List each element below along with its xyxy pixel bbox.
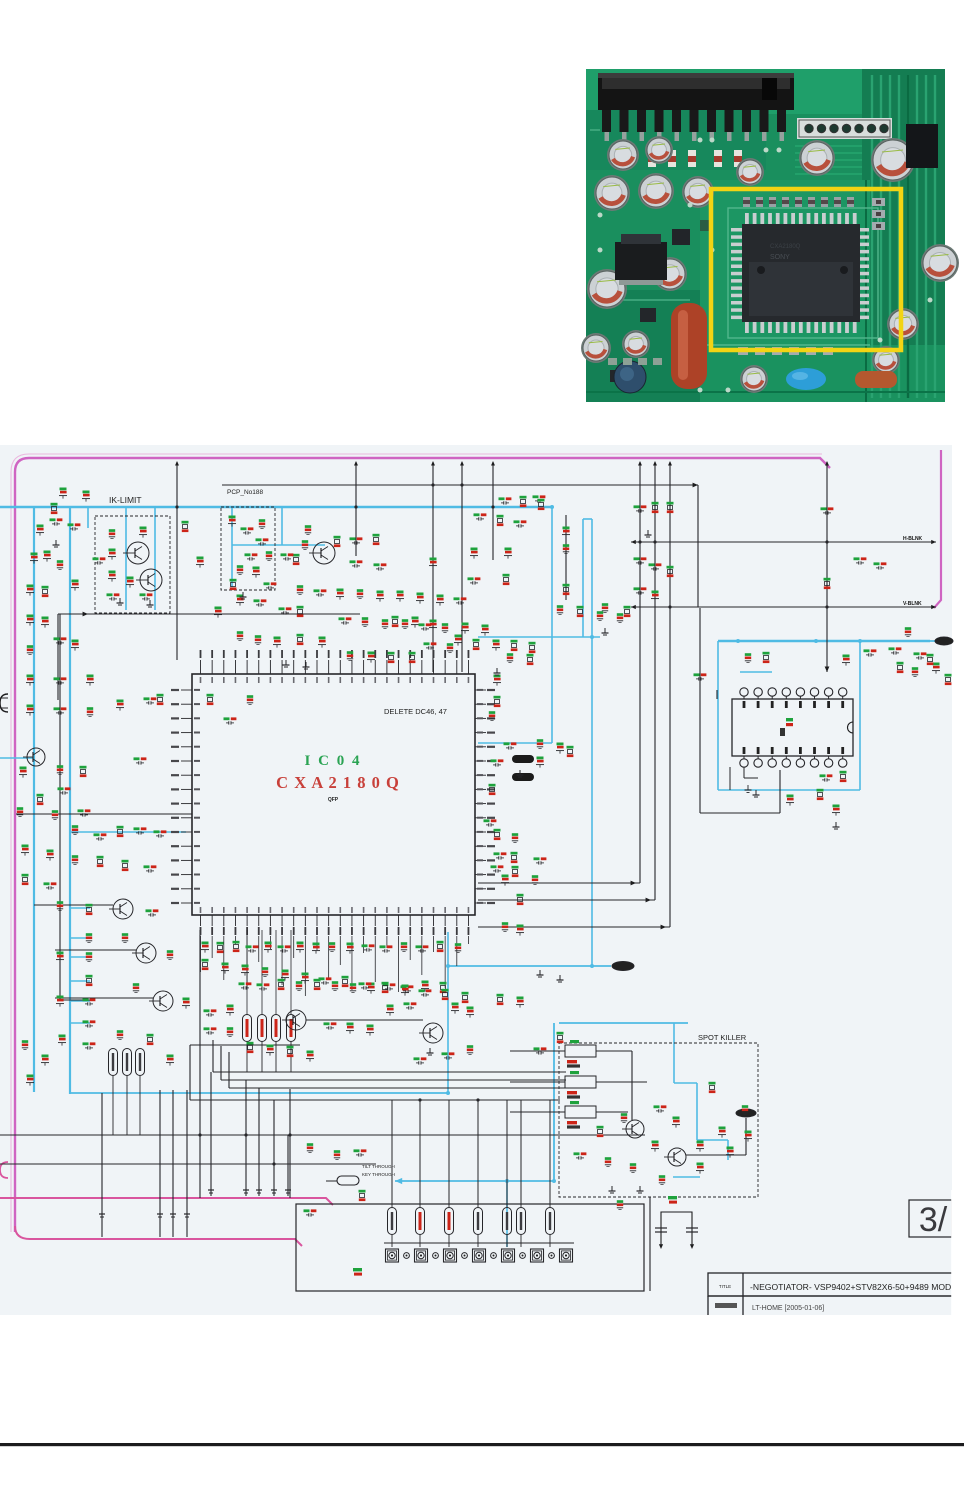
svg-text:SPOT KILLER: SPOT KILLER — [698, 1033, 747, 1042]
component cluster 259 — [302, 973, 309, 976]
component cluster 150 — [383, 983, 389, 986]
cyan stub x88 — [87, 507, 89, 528]
component cluster 27 — [374, 563, 380, 566]
wire vertical x200 drop — [199, 930, 201, 1198]
component cluster 98 — [167, 950, 173, 953]
component cluster 113 — [557, 743, 564, 746]
wire vertical x246 drop — [245, 1080, 247, 1196]
component cluster 6 — [93, 557, 99, 560]
component cluster 44 — [471, 548, 478, 551]
component cluster 49 — [533, 495, 539, 498]
component cluster 210 — [442, 623, 448, 626]
component cluster 99 — [183, 998, 190, 1001]
component cluster 100 — [122, 933, 128, 936]
pink border right segment — [934, 450, 941, 608]
component cluster 239 — [117, 700, 124, 703]
wire spot in 1 — [596, 1050, 632, 1052]
component cluster 35 — [297, 634, 304, 637]
IC U2 body — [732, 699, 853, 756]
component cluster 106 — [511, 640, 518, 643]
arrowheads at border top — [175, 461, 179, 465]
component cluster 181 — [659, 1175, 665, 1178]
pill x291 red — [287, 1015, 296, 1042]
schematic paper background — [0, 445, 952, 1315]
component cluster 167 — [467, 1045, 473, 1048]
wire vertical x493 — [492, 462, 494, 560]
component cluster 50 — [563, 527, 570, 530]
wire x190 drop — [189, 1045, 191, 1100]
component cluster 291 — [197, 557, 204, 560]
component cluster 121 — [534, 857, 540, 860]
black IC right top corner — [906, 124, 938, 168]
component cluster 5 — [68, 523, 74, 526]
component cluster 151 — [401, 985, 407, 988]
component cluster 292 — [127, 577, 134, 580]
wire spot in 2 — [596, 1081, 647, 1083]
pill x262 red — [258, 1015, 267, 1042]
component cluster 243 — [72, 855, 78, 858]
component cluster 185 — [617, 1200, 623, 1203]
svg-text:DELETE DC46, 47: DELETE DC46, 47 — [384, 707, 447, 716]
spot killer black pill connector — [736, 1109, 756, 1117]
IC U1 left pins — [181, 689, 192, 691]
component cluster 85 — [154, 830, 160, 833]
wire bus vertical x640 — [639, 462, 641, 883]
wire vertical x462 — [461, 462, 463, 672]
dark inductor pill L2 — [512, 773, 534, 781]
wire spot input 2 — [510, 1081, 565, 1083]
component cluster 191 — [266, 551, 272, 554]
component cluster 143 — [257, 983, 263, 986]
component cluster 15 — [229, 516, 236, 519]
component cluster 66 — [763, 652, 770, 655]
component cluster 43 — [279, 607, 285, 610]
transistor Q6 — [136, 943, 156, 963]
component cluster 42 — [297, 606, 304, 609]
transistor Q1 — [127, 542, 149, 564]
component cluster 131 — [278, 945, 284, 948]
wire vertical x177 — [176, 462, 178, 660]
component cluster 279 — [520, 496, 527, 499]
cyan spotkiller horizontal y1140 — [697, 1139, 728, 1141]
component cluster 260 — [319, 977, 325, 980]
IC U2 top pins — [740, 688, 748, 696]
cyan ladder stub 5 — [70, 1000, 90, 1002]
wire spot q11 base — [686, 1154, 746, 1156]
component cluster 72 — [945, 674, 952, 677]
component cluster 46 — [468, 577, 474, 580]
component cluster 59 — [824, 578, 831, 581]
component cluster 228 — [27, 615, 34, 618]
dark inductor pill L1 — [512, 755, 534, 763]
IC U2 bottom pins — [740, 759, 748, 767]
component cluster 152 — [422, 981, 429, 984]
wire vertical x827 — [826, 462, 828, 672]
cyan PCP vertical 1 — [231, 507, 233, 587]
wire horizontal y614 — [58, 613, 360, 615]
cyan stub y832 — [70, 831, 186, 833]
component cluster 230 — [27, 645, 33, 648]
component cluster 116 — [537, 757, 544, 760]
pink page border — [15, 458, 830, 1232]
component cluster 31 — [347, 651, 353, 654]
main IC (QFP) on photo — [745, 213, 749, 225]
cyan wire vertical x552 — [551, 507, 553, 743]
bottom big box — [296, 1204, 644, 1291]
connector squares row — [386, 1249, 399, 1262]
component cluster 130 — [265, 942, 272, 945]
component cluster 231 — [54, 637, 60, 640]
component cluster 144 — [278, 979, 285, 982]
connector pill x392 — [388, 1208, 397, 1235]
component cluster 169 — [442, 1052, 448, 1055]
cyan spotkiller vertical x697 — [696, 1083, 698, 1140]
wire spot in 3 — [596, 1111, 628, 1113]
right margin patch — [951, 1190, 964, 1320]
cyan vertical x554 — [553, 1023, 555, 1181]
wire horizontal y485 — [222, 484, 698, 486]
transistor Q7 — [153, 991, 173, 1011]
wire y1045 mid — [190, 1044, 300, 1046]
component cluster 166 — [557, 1032, 564, 1035]
cyan ladder stub 2 — [70, 937, 90, 939]
component cluster 141 — [455, 943, 461, 946]
wire vertical x566 upper — [565, 515, 567, 600]
component cluster 29 — [412, 617, 419, 620]
component cluster 25 — [293, 554, 300, 557]
component cluster 236 — [27, 705, 34, 708]
component cluster 273 — [307, 1051, 314, 1054]
cyan IK box vertical 2 — [154, 507, 156, 610]
wire vertical x58 — [57, 614, 59, 700]
component cluster 115 — [491, 759, 497, 762]
svg-text:SONY: SONY — [770, 254, 790, 261]
cyan pill right bus end — [935, 637, 953, 645]
component cluster 28 — [392, 616, 399, 619]
component cluster 32 — [368, 652, 375, 655]
component cluster 160 — [404, 1002, 410, 1005]
wire IC2 outline left — [716, 690, 718, 699]
component cluster 202 — [417, 593, 424, 596]
component cluster 82 — [94, 833, 100, 836]
component cluster 172 — [307, 1143, 313, 1146]
component cluster 176 — [727, 1147, 734, 1150]
component cluster 223 — [667, 566, 674, 569]
IC U2 center labels — [786, 718, 793, 721]
component cluster 81 — [72, 825, 78, 828]
component cluster 222 — [649, 563, 655, 566]
component cluster 153 — [440, 982, 447, 985]
component cluster 193 — [302, 540, 308, 543]
cyan ladder stub 6 — [70, 1022, 90, 1024]
component cluster 77 — [37, 794, 44, 797]
wire RGB feed 3 — [228, 1052, 230, 1088]
wire row above squares — [384, 1242, 574, 1244]
transistor Q8 — [423, 1023, 443, 1043]
component cluster 84 — [134, 827, 140, 830]
wire RGB feed 2 — [220, 1046, 222, 1080]
component cluster 156 — [324, 1022, 330, 1025]
component cluster 242 — [47, 850, 54, 853]
component cluster 174 — [654, 1105, 660, 1108]
pill x127 — [123, 1049, 132, 1076]
component cluster 203 — [437, 595, 444, 598]
component cluster 267 — [462, 992, 469, 995]
component cluster 117 — [489, 784, 496, 787]
component cluster 4 — [50, 518, 56, 521]
component cluster 70 — [694, 673, 700, 676]
component cluster 195 — [373, 534, 380, 537]
wire vertical x433 — [432, 462, 434, 672]
wire vertical x288 drop — [287, 1135, 289, 1196]
component cluster 22 — [264, 582, 270, 585]
component cluster 246 — [144, 865, 150, 868]
component cluster 302 — [254, 599, 260, 602]
component cluster 95 — [59, 1035, 66, 1038]
SMD row above IC — [743, 197, 750, 207]
component cluster 275 — [597, 1126, 604, 1129]
SPOT KILLER dashed box — [559, 1043, 758, 1197]
component cluster 68 — [840, 771, 847, 774]
component cluster 127 — [217, 942, 224, 945]
component cluster 237 — [54, 707, 60, 710]
component cluster 140 — [437, 941, 444, 944]
component cluster 212 — [424, 642, 430, 645]
component cluster 190 — [245, 553, 251, 556]
arrow V-BLNK — [631, 605, 636, 609]
component cluster 65 — [745, 653, 751, 656]
component cluster 250 — [512, 833, 518, 836]
component cluster 304 — [359, 1190, 366, 1193]
svg-text:PCP_No188: PCP_No188 — [227, 489, 264, 496]
large red capacitor — [671, 303, 707, 389]
component cluster 64 — [905, 627, 911, 630]
cyan wire y966 — [448, 965, 611, 967]
component cluster 187 — [787, 795, 794, 798]
op IC U1 CXA2180Q body — [192, 674, 475, 915]
component cluster 192 — [281, 553, 287, 556]
component cluster 271 — [267, 1045, 274, 1048]
component cluster 188 — [854, 557, 860, 560]
component cluster 120 — [511, 852, 518, 855]
component cluster 21 — [253, 567, 260, 570]
component cluster 232 — [72, 640, 79, 643]
transistor Q9 — [286, 1010, 306, 1030]
PCP dashed box — [221, 507, 275, 590]
small SMD parts left — [672, 229, 690, 245]
component cluster 128 — [233, 941, 240, 944]
component cluster 91 — [83, 1020, 89, 1023]
component cluster 252 — [512, 866, 519, 869]
wire bus vertical x670 — [669, 462, 671, 927]
component cluster 281 — [474, 513, 480, 516]
component cluster 125 — [517, 925, 524, 928]
component cluster 133 — [313, 943, 320, 946]
component cluster 182 — [697, 1163, 704, 1166]
component cluster 200 — [377, 591, 384, 594]
connector J1 (black header) — [598, 73, 794, 110]
svg-text:CXA2180Q: CXA2180Q — [770, 244, 801, 250]
component cluster 88 — [86, 952, 92, 955]
component cluster 14 — [107, 593, 113, 596]
component cluster 52 — [563, 584, 570, 587]
bottom horizontal rule — [0, 1443, 964, 1446]
component cluster 114 — [567, 746, 574, 749]
component cluster 122 — [502, 875, 509, 878]
component cluster 55 — [634, 505, 640, 508]
cyan PCP vertical 2 — [281, 507, 283, 545]
component cluster 184 — [745, 1131, 752, 1134]
left edge bracket connector — [0, 694, 8, 712]
component cluster 58 — [821, 507, 827, 510]
component cluster 12 — [140, 527, 147, 530]
component cluster 30 — [430, 620, 437, 623]
component cluster 295 — [207, 694, 214, 697]
wire junction dots — [175, 505, 178, 508]
spot killer switch S2 — [565, 1076, 596, 1088]
component cluster 101 — [133, 983, 139, 986]
component cluster 197 — [314, 589, 320, 592]
component cluster 253 — [532, 875, 538, 878]
wire bus y1088 — [229, 1087, 566, 1089]
transistor Q3 — [313, 542, 335, 564]
wire vertical x187 drop — [186, 1090, 188, 1237]
wire ladder join — [60, 999, 90, 1001]
component cluster 269 — [227, 1027, 233, 1030]
spot killer transistor Q10 — [626, 1120, 644, 1138]
component cluster 219 — [597, 611, 603, 614]
connector pill x550 — [546, 1208, 555, 1235]
component cluster 268 — [204, 1027, 210, 1030]
wire bus y1080 — [221, 1079, 566, 1081]
component cluster 206 — [362, 617, 368, 620]
cyan wire vertical x448 — [447, 932, 449, 1093]
component cluster 248 — [44, 882, 50, 885]
component cluster 67 — [820, 774, 826, 777]
cyan wire vertical x860 — [859, 641, 861, 790]
bottom SMD row — [738, 347, 748, 355]
component cluster 16 — [241, 527, 247, 530]
component cluster 7 — [31, 553, 38, 556]
component cluster 74 — [80, 766, 87, 769]
cyan spotkiller horizontal y1023 — [559, 1022, 688, 1024]
pink connector hook left edge — [0, 1162, 8, 1178]
solder pads dots — [698, 138, 703, 143]
component cluster 165 — [534, 1047, 540, 1050]
svg-text:QFP: QFP — [328, 797, 339, 803]
svg-text:H-BLNK: H-BLNK — [903, 536, 923, 542]
cyan stub left bottom — [0, 757, 34, 759]
cyan PCP horizontal — [232, 544, 325, 546]
svg-text:C X A 2 1 8 0 Q: C X A 2 1 8 0 Q — [276, 773, 400, 792]
component cluster 9 — [109, 529, 115, 532]
component cluster 26 — [350, 560, 356, 563]
component cluster 186 — [817, 789, 824, 792]
wire vertical x698 — [697, 485, 699, 607]
IK-LIMIT dashed box — [95, 516, 170, 613]
component cluster 159 — [387, 1005, 394, 1008]
component cluster 61 — [864, 649, 870, 652]
cyan wire horizontal y637 — [478, 636, 600, 638]
component cluster 204 — [454, 597, 460, 600]
wire right box bottom y813 — [700, 812, 780, 814]
component cluster 10 — [109, 549, 116, 552]
component cluster 80 — [17, 807, 23, 810]
component cluster 162 — [467, 1007, 474, 1010]
component cluster 148 — [350, 983, 356, 986]
component cluster 296 — [224, 717, 230, 720]
component cluster 270 — [247, 1042, 254, 1045]
wire RGB feed 1 — [212, 1040, 214, 1072]
cyan bus top horizontal — [0, 506, 552, 508]
cyan bus right horizontal y641 — [718, 640, 930, 642]
component cluster 126 — [202, 942, 209, 945]
component cluster 290 — [182, 521, 189, 524]
component cluster 168 — [414, 1057, 420, 1060]
component cluster 257 — [262, 967, 268, 970]
component cluster 286 — [927, 654, 934, 657]
component cluster 221 — [634, 557, 640, 560]
wire vertical x60 left — [59, 614, 61, 1000]
wire spot vertical x632 — [631, 1051, 633, 1120]
cyan spotkiller vertical x674 — [673, 1023, 675, 1083]
component cluster 198 — [337, 589, 344, 592]
yellow highlight box — [711, 189, 901, 350]
cyan bottom horizontal y1181 — [395, 1180, 554, 1182]
component cluster 110 — [489, 711, 495, 714]
component cluster 178 — [709, 1082, 716, 1085]
connector pill x478 — [474, 1208, 483, 1235]
transistor Q5 — [113, 899, 133, 919]
spot killer switch S1 — [565, 1045, 596, 1057]
component cluster 155 — [204, 1009, 210, 1012]
transistor Q4 — [27, 748, 45, 766]
cyan bus left vertical x34 — [33, 507, 35, 1092]
component cluster 298 — [22, 1040, 28, 1043]
component cluster 218 — [577, 606, 584, 609]
component cluster 108 — [494, 675, 501, 678]
component cluster 57 — [667, 502, 674, 505]
component cluster 256 — [242, 965, 249, 968]
cyan IK box vertical 1 — [125, 507, 127, 610]
component cluster 136 — [362, 944, 368, 947]
component cluster 138 — [401, 942, 407, 945]
component cluster 89 — [86, 975, 93, 978]
component cluster 71 — [933, 663, 940, 666]
component cluster 134 — [329, 942, 335, 945]
component cluster 266 — [442, 989, 449, 992]
green label below connector row — [353, 1268, 362, 1271]
svg-text:KEY THROUGH: KEY THROUGH — [362, 1172, 395, 1177]
component cluster 300 — [27, 1075, 34, 1078]
component cluster 38 — [274, 637, 281, 640]
cyan ladder stub 1 — [70, 907, 90, 909]
cyan wire vertical x718 — [717, 641, 719, 790]
wire IC right to bus y900 — [478, 899, 655, 901]
ground symbols — [496, 668, 498, 673]
component cluster 129 — [246, 945, 252, 948]
component cluster 207 — [382, 619, 388, 622]
wire bus vertical x655 — [654, 462, 656, 900]
component cluster 102 — [117, 1030, 123, 1033]
pill x113 — [109, 1049, 118, 1076]
component cluster 216 — [527, 654, 534, 657]
component cluster 196 — [297, 585, 303, 588]
component cluster 277 — [673, 1117, 680, 1120]
cyan vertical x507 to connector — [506, 1181, 508, 1247]
component cluster 1 — [60, 488, 67, 491]
connector stubs crossing pink buses — [99, 1213, 105, 1215]
